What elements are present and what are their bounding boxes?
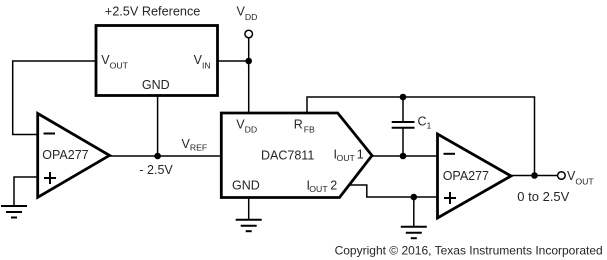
wire junction to ground <box>413 197 415 227</box>
wire reference GND pin to -2.5V node <box>157 96 159 157</box>
pin label IOUT 2 <box>307 178 338 194</box>
svg-text:OPA277: OPA277 <box>42 148 88 162</box>
wire VOUT feedback to OPA277 inverting input <box>13 61 96 135</box>
wire OPA277 output to VOUT terminal <box>511 175 558 177</box>
svg-text:0 to 2.5V: 0 to 2.5V <box>517 189 569 204</box>
wire RFB to feedback rail <box>307 97 535 176</box>
ground left op-amp <box>1 206 27 218</box>
U1 inverting input symbol <box>44 133 56 135</box>
U3 inverting input symbol <box>444 153 456 155</box>
ground DAC <box>236 220 262 232</box>
junction VDD / VIN <box>245 58 252 65</box>
DAC U2 DAC7811 <box>221 113 372 198</box>
svg-text:1: 1 <box>357 147 364 161</box>
wire OPA277 output to DAC VREF (node -2.5V) <box>110 155 222 157</box>
svg-text:OUT: OUT <box>337 153 356 163</box>
svg-text:GND: GND <box>232 178 260 192</box>
wire C1 bottom lead <box>402 128 404 156</box>
op-amp U3 OPA277 (right) <box>438 134 512 218</box>
pin label IOUT 1 <box>334 147 364 163</box>
wire IOUT1 to OPA277 inverting input <box>372 155 438 157</box>
junction -2.5V node <box>154 153 161 160</box>
wire VIN to VDD node <box>218 60 249 62</box>
svg-text:OUT: OUT <box>309 184 328 194</box>
U3 non-inverting input symbol <box>444 192 456 204</box>
svg-text:2: 2 <box>330 178 337 192</box>
svg-text:Copyright © 2016, Texas Instru: Copyright © 2016, Texas Instruments Inco… <box>335 243 603 257</box>
junction C1 bottom / IOUT1 <box>400 153 407 160</box>
junction C1 top <box>400 94 407 101</box>
svg-text:+2.5V Reference: +2.5V Reference <box>105 5 201 19</box>
VOUT output terminal <box>558 172 566 180</box>
U1 non-inverting input symbol <box>44 172 56 184</box>
wire OPA277 non-inverting input to ground <box>14 177 38 206</box>
wire C1 top lead <box>402 97 404 122</box>
VDD supply terminal <box>245 30 253 38</box>
svg-text:OPA277: OPA277 <box>443 169 489 183</box>
wire DAC GND pin to ground <box>248 198 250 220</box>
+2.5V reference box <box>96 26 218 96</box>
svg-text:DAC7811: DAC7811 <box>261 148 314 162</box>
ground right op-amp <box>401 227 427 239</box>
junction non-inverting input / ground <box>411 194 418 201</box>
op-amp U1 OPA277 (left) <box>38 114 110 198</box>
wire IOUT2 to OPA277 non-inverting input <box>349 185 438 197</box>
wire VDD terminal to DAC VDD pin <box>248 38 250 113</box>
svg-text:GND: GND <box>142 78 170 92</box>
junction output / feedback <box>531 172 538 179</box>
capacitor C1 <box>392 122 415 128</box>
svg-text:- 2.5V: - 2.5V <box>139 163 173 177</box>
